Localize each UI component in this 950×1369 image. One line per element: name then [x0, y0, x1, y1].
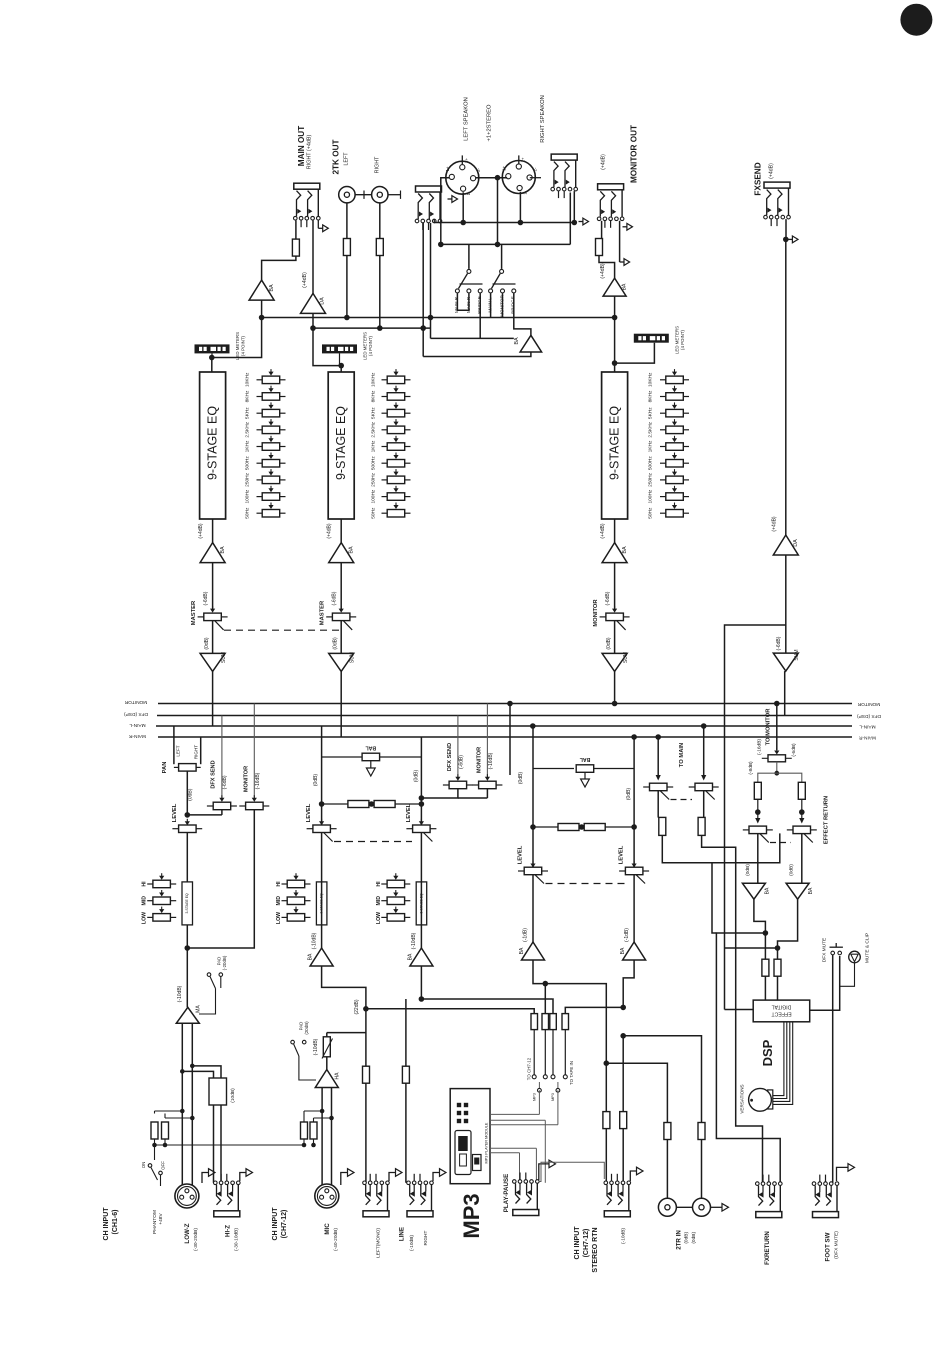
svg-text:STEREO RTN: STEREO RTN [592, 1227, 599, 1272]
op-amp BA3b stereo rtn [623, 942, 646, 960]
svg-text:LEFT(MONO): LEFT(MONO) [375, 1228, 381, 1258]
wire jack J3 right feed [569, 193, 571, 245]
EQ slider 1KHz [257, 446, 263, 448]
svg-text:MAIN-R: MAIN-R [858, 735, 876, 741]
svg-text:(-16dB): (-16dB) [488, 752, 494, 769]
svg-text:DSP: DSP [760, 1039, 775, 1066]
svg-text:LED METERS: LED METERS [235, 332, 240, 360]
svg-text:PLAY-PAUSE: PLAY-PAUSE [503, 1174, 510, 1213]
resistor to-main-2 [698, 817, 705, 835]
wire to resistor R3q [552, 999, 554, 1014]
EQ slider 8KHz [660, 396, 666, 398]
connector 2TR IN left RCA [658, 1198, 676, 1216]
svg-text:2-: 2- [533, 167, 538, 171]
registration dot (page marker) [900, 4, 932, 36]
wire EQ to amp BA x=212.6 [212, 519, 214, 543]
wire FXSEND jack to DA amp [785, 242, 787, 536]
svg-text:MONITOR: MONITOR [244, 766, 250, 792]
op-amp BA4b effect return (0dB) [786, 883, 809, 899]
svg-text:(20dB): (20dB) [304, 1021, 309, 1035]
wire SW-A bridge throw down [479, 293, 481, 338]
svg-text:2+: 2+ [464, 158, 469, 163]
connector LEFT SPEAKON [446, 161, 479, 194]
resistor to-main-1 [659, 817, 666, 835]
svg-text:MUTE & CLIP: MUTE & CLIP [865, 933, 871, 963]
svg-text:(-10dB): (-10dB) [411, 932, 417, 949]
block 3-STAGE EQ ch7-12 R [416, 882, 427, 925]
connector STEREO RTN jack [604, 1181, 608, 1185]
arrow low-z flow [202, 1173, 209, 1184]
potentiometer TO MAIN 2 [689, 786, 696, 788]
wire MONITOR1 bottom to channel node [187, 810, 254, 948]
svg-text:(-40-20dB): (-40-20dB) [333, 1228, 339, 1251]
svg-text:MID: MID [142, 896, 148, 906]
svg-text:2-: 2- [476, 168, 481, 172]
svg-text:MAIN-L: MAIN-L [859, 724, 876, 730]
resistor R3q [550, 1014, 557, 1030]
svg-text:LOW: LOW [276, 912, 282, 924]
connector XLR LOW-Z input [175, 1184, 199, 1208]
svg-text:(-10dB): (-10dB) [621, 1228, 627, 1244]
wire BA1 base to line A [261, 300, 263, 317]
wire right speakon pin 1- down [519, 192, 521, 223]
svg-text:BA: BA [349, 546, 355, 554]
op-amp BA1 (main out buffer) [249, 280, 274, 300]
mp3 link stubs [538, 1082, 540, 1088]
op-amp SUM [200, 653, 225, 671]
wire SUM2 to MAIN-R bus [340, 671, 342, 737]
potentiometer EFFECT RETURN L [743, 829, 750, 831]
wire right RCA stub [388, 194, 400, 196]
EQ slider 50Hz [660, 512, 666, 514]
svg-text:(-6dB): (-6dB) [222, 775, 228, 789]
svg-text:MONITOR: MONITOR [124, 699, 147, 705]
wire BA2b out to node [420, 966, 422, 999]
connector XLR MIC input [315, 1184, 339, 1208]
svg-text:DFX (DSP): DFX (DSP) [857, 713, 881, 719]
wire line B (main right mix) [313, 327, 431, 329]
svg-text:CH INPUT: CH INPUT [574, 1226, 581, 1260]
trim pot (22dB) mic ch7-12 [326, 1033, 328, 1037]
svg-text:PAD: PAD [299, 1022, 304, 1031]
svg-text:FOOT SW: FOOT SW [824, 1232, 831, 1261]
svg-text:10KHz: 10KHz [371, 372, 377, 387]
wiper arrow LEVEL3a [532, 861, 534, 864]
wire DFX1 bottom to pan node [221, 810, 223, 815]
EQ slider 10KHz [660, 379, 666, 381]
wire LEVEL1 to EQ [186, 833, 188, 882]
svg-text:(-16dB): (-16dB) [757, 739, 763, 755]
EQ slider 1KHz [382, 446, 388, 448]
svg-text:BA: BA [620, 947, 626, 954]
svg-text:PAD: PAD [217, 957, 222, 966]
svg-text:500Hz: 500Hz [648, 456, 654, 470]
svg-text:(4 POINT): (4 POINT) [680, 329, 685, 350]
svg-text:BA: BA [808, 887, 814, 894]
arrow hi-z flow [240, 1173, 246, 1182]
svg-text:DFX SEND: DFX SEND [211, 760, 217, 788]
svg-text:(CH7-12): (CH7-12) [281, 1210, 288, 1239]
wire BA4b output to node [778, 899, 798, 948]
svg-text:CH INPUT: CH INPUT [272, 1207, 279, 1241]
resistor rtn-L in [603, 1112, 610, 1129]
resistor dfx-in-R [777, 948, 779, 960]
op-amp SUM [329, 653, 354, 671]
switch PAD1 [207, 973, 211, 977]
potentiometer LEVEL1 [172, 828, 179, 830]
EQ slider 5KHz [660, 412, 666, 414]
wiper arrow LEVEL2a [321, 819, 323, 822]
svg-text:RIGHT: RIGHT [423, 1230, 429, 1245]
EQ slider 2.5KHz [257, 429, 263, 431]
EQ pot HI ch1 [147, 883, 153, 885]
svg-text:500Hz: 500Hz [371, 456, 377, 470]
svg-text:(-20dB): (-20dB) [222, 955, 227, 970]
connector LINE LEFT(MONO) jack [363, 1181, 367, 1185]
wire PAN right lead to MAIN-R bus [200, 737, 202, 764]
wire to resistor R1q [531, 1009, 535, 1014]
svg-text:(-10dB): (-10dB) [313, 1038, 319, 1055]
svg-text:(+4dB): (+4dB) [772, 516, 778, 531]
op-amp BA (+4dB) post-EQ [200, 543, 225, 563]
svg-text:LEVEL: LEVEL [172, 803, 178, 822]
op-amp BA2b [410, 948, 433, 966]
wiper arrow into LEVEL1 [186, 819, 188, 822]
potentiometer EFFECT RETURN R [787, 829, 794, 831]
wire node to summing resistor R3 [421, 998, 552, 1000]
svg-text:250Hz: 250Hz [245, 472, 251, 486]
svg-text:DA: DA [793, 539, 799, 547]
connector J1 MAIN OUT jack [294, 183, 320, 189]
wire amp to master fader [340, 563, 342, 611]
svg-text:(-1dB): (-1dB) [624, 928, 630, 942]
svg-text:(-10dB): (-10dB) [409, 1235, 415, 1251]
wire BA5 base to monitor line [614, 296, 616, 317]
svg-text:SUM: SUM [350, 652, 356, 663]
svg-text:(+4dB): (+4dB) [327, 523, 333, 538]
block DIGITAL EFFECT [753, 1000, 810, 1022]
wire speakon link to switch net [497, 178, 499, 245]
wire to-main-2 resistor routing [702, 835, 763, 1183]
resistor R-mainout [292, 239, 299, 256]
svg-text:EFFECT: EFFECT [771, 1011, 792, 1017]
wires DIGITAL EFFECT to DSP chip [773, 1022, 784, 1096]
wire strip2 L line down [321, 757, 323, 829]
svg-text:100Hz: 100Hz [648, 489, 654, 503]
wire fader to sum amp [212, 621, 214, 654]
svg-text:(4 POINT): (4 POINT) [241, 335, 246, 356]
svg-text:(-6dB): (-6dB) [332, 591, 338, 605]
svg-text:ON: ON [141, 1162, 146, 1169]
svg-text:(10dB): (10dB) [230, 1088, 236, 1103]
op-amp BA bridge [520, 335, 542, 352]
EQ slider 500Hz [257, 462, 263, 464]
svg-text:1-: 1- [466, 191, 471, 195]
svg-text:(-6dB): (-6dB) [605, 591, 611, 605]
svg-text:50Hz: 50Hz [245, 507, 251, 519]
svg-text:500Hz: 500Hz [245, 456, 251, 470]
connector J2 aux stereo jack [416, 186, 442, 192]
connector 2TK OUT LEFT RCA [339, 187, 355, 203]
wire between 2TR RCAs [676, 1206, 692, 1208]
svg-text:(CH7-12): (CH7-12) [583, 1229, 590, 1258]
svg-text:DFX (DSP): DFX (DSP) [124, 711, 148, 717]
op-amp BA4a effect return (0dB) [742, 883, 765, 899]
connector FXRETURN jack [756, 1182, 760, 1186]
svg-text:(-6dB): (-6dB) [776, 636, 782, 650]
svg-text:10KHz: 10KHz [648, 372, 654, 387]
wire EQ1ch to MA node [186, 925, 188, 1007]
wire monitor jack left contact to resistor [601, 221, 603, 239]
EQ slider 250Hz [382, 479, 388, 481]
svg-text:1-: 1- [522, 190, 527, 194]
wire node22 to summing resistor R1 [366, 1008, 531, 1010]
svg-text:1KHz: 1KHz [648, 440, 654, 452]
wire fxsend jack to line [785, 219, 787, 241]
resistor 2TR-R [698, 1123, 705, 1140]
potentiometer DFX SEND2 [443, 784, 449, 786]
wire fader to sum amp [614, 621, 616, 654]
wire BA3b out down [623, 960, 634, 1007]
svg-text:BA: BA [407, 953, 413, 960]
wire MAIN-L to TO MAIN pot2 [701, 723, 707, 729]
wire SUM1 to MAIN-L bus [212, 671, 214, 726]
wire aux jack to line A and tie line [430, 223, 432, 338]
svg-text:RIGHT: RIGHT [194, 745, 199, 759]
svg-text:BA: BA [269, 284, 275, 292]
svg-text:50Hz: 50Hz [648, 507, 654, 519]
arrow aux jack flow [448, 198, 452, 200]
EQ slider 2.5KHz [660, 429, 666, 431]
svg-text:MP3 PLAYER MODULE: MP3 PLAYER MODULE [484, 1122, 488, 1163]
switch PHANTOM on/off [154, 1145, 156, 1160]
svg-text:(0dB): (0dB) [606, 637, 612, 650]
svg-text:BA: BA [764, 887, 770, 894]
svg-text:(CH1-6): (CH1-6) [112, 1210, 119, 1235]
potentiometer MONITOR1 [239, 805, 245, 807]
resistor R2q [542, 1014, 549, 1030]
connector J3 amp out jack [551, 154, 577, 160]
EQ slider 100Hz [257, 496, 263, 498]
wire SUM3 to MONITOR bus [614, 671, 616, 703]
svg-text:(4 POINT): (4 POINT) [368, 335, 373, 356]
wire BA3a out to node [533, 960, 545, 984]
svg-text:TO TAPE IN: TO TAPE IN [569, 1061, 574, 1085]
op-amp BA (+4dB) post-EQ [329, 543, 354, 563]
svg-text:5KHz: 5KHz [245, 407, 251, 419]
svg-text:5KHz: 5KHz [371, 407, 377, 419]
arrow line-right flow [433, 1173, 440, 1182]
wire PAN left lead to MAIN-L bus [173, 726, 175, 764]
svg-text:(0dB): (0dB) [313, 774, 319, 787]
svg-text:9-STAGE EQ: 9-STAGE EQ [608, 406, 622, 480]
mp3 display [455, 1131, 471, 1175]
svg-text:LEVEL: LEVEL [406, 803, 412, 822]
op-amp DA1 (+4dB) [301, 293, 326, 313]
EQ pots ch7-12 R [381, 883, 387, 885]
wire MAIN OUT right contact to amp DA1 [312, 220, 314, 293]
wire aux right contact to y244 net [440, 217, 442, 244]
svg-text:MIC: MIC [324, 1223, 331, 1235]
mic phantom resistors [304, 1110, 322, 1112]
resistor monitor out [596, 239, 603, 256]
connector FOOT SW jack [812, 1182, 816, 1186]
wire line A to meter1/EQ1 [212, 318, 262, 358]
connector 2TK OUT RIGHT RCA [372, 187, 388, 203]
wire right speakon pin 2+ stub [518, 155, 520, 164]
svg-text:LEFT SPEAKON: LEFT SPEAKON [463, 97, 469, 141]
EQ slider 8KHz [382, 396, 388, 398]
svg-text:5KHz: 5KHz [648, 407, 654, 419]
wire to-main-1 branch to fx return net [712, 863, 716, 933]
resistor line-R [402, 1066, 409, 1083]
wire 2TK L resistor to line A [346, 256, 348, 318]
wires quad resistors to contacts [533, 1030, 535, 1075]
svg-text:3-STAGE EQ: 3-STAGE EQ [185, 893, 189, 913]
EQ slider 500Hz [660, 462, 666, 464]
wire mute switch to foot sw jack [832, 955, 834, 1184]
svg-text:TO MONITOR: TO MONITOR [766, 708, 772, 746]
svg-text:MAIN-L: MAIN-L [129, 722, 146, 728]
wire dotB to 2TR-R feed [620, 1033, 626, 1039]
svg-text:MID: MID [376, 896, 382, 906]
wiper arrow LEVEL2b [420, 819, 422, 822]
potentiometer BAL ch7-12 [322, 756, 363, 758]
wire trim to line-L feed [327, 1032, 366, 1034]
arrow play-pause flow [539, 1164, 549, 1180]
summing resistors between strip2 L/R [322, 803, 348, 805]
EQ slider 50Hz [382, 512, 388, 514]
svg-text:(+4dB): (+4dB) [198, 523, 204, 538]
wire node to DSP feed join [725, 947, 778, 949]
ground arrow below BAL [370, 761, 372, 768]
EQ slider 8KHz [257, 396, 263, 398]
switch PAD2 [291, 1040, 295, 1044]
wire EQ to amp BA x=614.6 [614, 519, 616, 543]
resistor phantom R2 [162, 1122, 169, 1139]
wire HA inputs down [321, 1088, 323, 1189]
wire DA2 to FX sum [785, 555, 787, 653]
wire SW-B main-l throw to line A [490, 293, 492, 317]
gang dashed link level2a-level2b [334, 841, 412, 843]
EQ slider 1KHz [660, 446, 666, 448]
LED meter M2 (main R) [322, 344, 357, 353]
svg-text:MP3: MP3 [459, 1193, 484, 1238]
arrow mic flow [341, 1173, 348, 1186]
svg-text:250Hz: 250Hz [648, 472, 654, 486]
EQ slider 50Hz [257, 512, 263, 514]
wiper arrow LEVEL3b [633, 861, 635, 864]
svg-text:LOW-Z: LOW-Z [184, 1223, 191, 1243]
wire pan node to DFX send [187, 814, 222, 816]
wire J3 contact down [573, 191, 575, 222]
wire monitor line to meter3/EQ3 [614, 318, 616, 373]
LED meter M3 (monitor) [634, 334, 669, 343]
block EQ1 9-STAGE EQ (main L) [200, 372, 226, 519]
svg-text:(0dB): (0dB) [691, 1232, 697, 1244]
wire rtn-L down to input resistor [605, 1063, 607, 1183]
wire 2TK R to resistor [379, 203, 381, 239]
svg-text:(-30-10dB): (-30-10dB) [234, 1228, 240, 1251]
wire FX line to DSP feed [725, 625, 786, 1010]
svg-text:9-STAGE EQ: 9-STAGE EQ [334, 406, 348, 480]
svg-text:(+4dB): (+4dB) [769, 163, 775, 179]
mp3 buttons [457, 1103, 461, 1107]
svg-text:9-STAGE EQ: 9-STAGE EQ [206, 406, 220, 480]
svg-text:10KHz: 10KHz [245, 372, 251, 387]
svg-text:HA: HA [335, 1072, 341, 1080]
svg-text:TO MAIN: TO MAIN [679, 743, 685, 767]
svg-text:EFFECT RETURN: EFFECT RETURN [824, 796, 830, 844]
svg-text:MAIN OUT: MAIN OUT [297, 126, 306, 166]
svg-text:HI: HI [276, 881, 282, 887]
svg-text:MASTER: MASTER [320, 600, 326, 625]
svg-text:+1+2STEREO: +1+2STEREO [487, 104, 493, 142]
connector 2TR IN right RCA [693, 1198, 711, 1216]
svg-text:SUM: SUM [221, 652, 227, 663]
wire EQ to amp BA x=341.2 [340, 519, 342, 543]
fader MONITOR [600, 616, 606, 618]
wire eff rtn resistors to pots [757, 799, 759, 822]
wire phantom rail to mic channel [155, 1144, 305, 1146]
svg-text:(DFX MUTE): (DFX MUTE) [834, 1231, 840, 1259]
svg-text:SUM: SUM [794, 649, 800, 660]
wire TO MONITOR out to effect return feeds [776, 762, 778, 773]
svg-text:BA: BA [220, 546, 226, 554]
svg-text:HI-Z: HI-Z [225, 1225, 232, 1237]
EQ slider 2.5KHz [382, 429, 388, 431]
svg-text:100Hz: 100Hz [371, 489, 377, 503]
wire right speakon pin 2- stub [530, 177, 541, 179]
svg-text:CH INPUT: CH INPUT [103, 1207, 110, 1241]
svg-text:LOW: LOW [376, 912, 382, 924]
wire DA1 base to line B [312, 313, 314, 328]
lamp MUTE & CLIP [849, 951, 861, 963]
wire to resistor R4q [565, 1007, 623, 1013]
svg-text:(0dB): (0dB) [413, 770, 419, 783]
wire 2TK L to resistor [346, 203, 348, 239]
svg-text:FXSEND: FXSEND [754, 162, 763, 195]
gray feed MONITOR1 from bus [253, 704, 255, 800]
svg-text:(-6dB): (-6dB) [203, 591, 209, 605]
wire phantom taps [155, 1110, 183, 1112]
wire strip2 left line from MAIN-L bus [321, 726, 323, 757]
wire trim to HA amp [326, 1057, 328, 1070]
svg-text:(0dB): (0dB) [187, 788, 193, 801]
potentiometer LEVEL3b [619, 870, 626, 872]
svg-text:BA: BA [514, 337, 520, 345]
mp3 output wires to link points [490, 1113, 539, 1115]
svg-text:DIGITAL: DIGITAL [771, 1004, 791, 1010]
net wire y=244.4 [441, 243, 571, 245]
wire strip2 R line to LINE jack [405, 999, 407, 1183]
op-amp MA (mic amp ch1-6) [176, 1007, 199, 1023]
block EQ2 9-STAGE EQ (main R) [328, 372, 354, 519]
wire line B to meter2/EQ2 [313, 328, 341, 372]
gray feed DFX SEND1 from bus [221, 716, 223, 800]
gang dashed to-main [671, 799, 693, 801]
svg-text:1+: 1+ [502, 165, 507, 170]
svg-text:LEFT: LEFT [176, 745, 181, 756]
wire level2b to EQ to BA2b [420, 833, 422, 949]
arrow fxsend flow [788, 238, 792, 240]
wire strip2 R line down [420, 757, 422, 829]
svg-text:(0dB): (0dB) [745, 864, 751, 876]
svg-text:BA: BA [308, 953, 314, 960]
svg-text:(0dB): (0dB) [789, 864, 795, 876]
svg-text:(22dB): (22dB) [354, 999, 360, 1014]
LED meter M1 (main L) [195, 344, 230, 353]
